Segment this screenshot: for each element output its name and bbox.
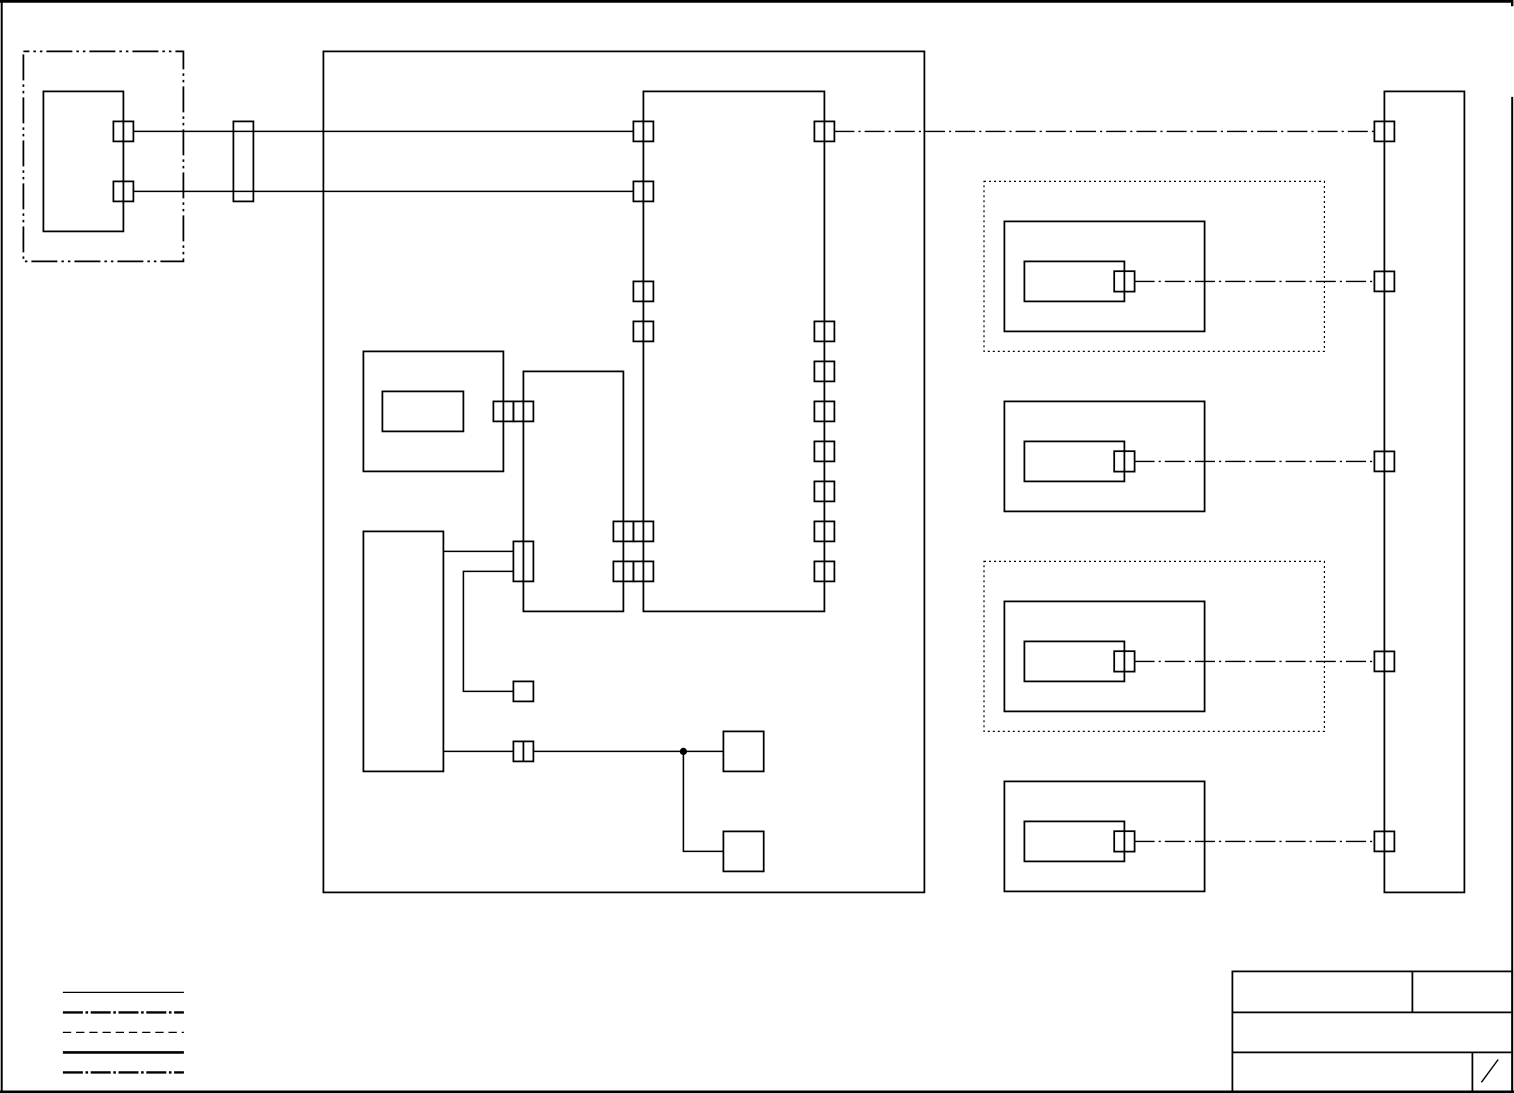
page left border [1,0,3,1093]
element of A1 [1024,261,1124,301]
component box A1 (sensor) [1004,221,1204,331]
wire M1-1 to U1 pin [133,130,633,132]
legend sample 4 thick solid line [63,1051,184,1054]
component box A2 (sensor) [1004,401,1204,511]
pin U1 left mid upper [633,521,653,541]
wire M4 lower to inline connector X4 [443,750,513,752]
pin M3 in [513,401,533,421]
dash-dot-dot enclosure around top-left unit [23,51,183,261]
dash-dot wire A2 to junction strip [1135,460,1375,462]
ground block G1 [723,731,763,771]
dash-dot wire A4 to junction strip [1135,840,1375,842]
page bottom border [0,1090,1514,1093]
pin M1-2 [113,181,133,201]
connector X4 mating divider [522,741,524,761]
pin A1 [1114,271,1134,291]
connector X2 two-pin [513,541,533,581]
strip pin 5 [1374,831,1394,851]
strip pin 2 [1374,271,1394,291]
title block cell divider bottom row [1471,1052,1473,1091]
component box A3 (sensor) [1004,601,1204,711]
title block cell divider top row [1411,971,1413,1012]
legend sample 1 thin solid line [63,991,184,993]
dotted shield enclosure S2 [984,561,1324,731]
pin U1 right 2 [814,321,834,341]
junction node [680,748,687,755]
legend sample 3 thin dashed line [63,1031,184,1033]
legend sample 5 thick dash-dot line [63,1071,184,1073]
component box M1 (top-left unit) [43,91,123,231]
wire M1-2 to U1 pin [133,190,633,192]
pin U1 left 3 [633,281,653,301]
pin U1 right 5 [814,441,834,461]
pin U1 left 2 [633,181,653,201]
pin X3 [513,681,533,701]
component box M4 (left lower unit) [363,531,443,771]
junction strip (right connector rail) [1384,91,1464,892]
element of A4 [1024,821,1124,861]
main harness box [323,51,924,892]
page top border right tick [1511,0,1513,6]
title block diagonal slash [1481,1060,1498,1083]
wire M4 upper to connector X2 [443,550,513,552]
strip pin 4 [1374,651,1394,671]
pin A3 [1114,651,1134,671]
pin U1 right 1 [814,121,834,141]
wire X4 to ground block G1 [533,750,723,752]
page top border [0,0,1513,3]
pin A4 [1114,831,1134,851]
pin U1 right 3 [814,361,834,381]
wire X2 lower pin loop to pin X3 [463,571,513,691]
pin U1 left 4 [633,321,653,341]
title block row divider 2 [1232,1051,1512,1053]
strip pin 1 [1374,121,1394,141]
pin M3 right lower [613,561,633,581]
inline connector X4 [513,741,533,761]
element of A2 [1024,441,1124,481]
inline connector X1 [233,121,253,201]
dash-dot wire U1 to junction strip pin 1 [834,130,1374,132]
title block row divider 1 [1232,1011,1512,1013]
ground block G2 [723,831,763,871]
wire junction down to ground block G2 [683,751,723,851]
pin A2 [1114,451,1134,471]
dash-dot wire A1 to junction strip [1135,280,1375,282]
pin U1 left 1 [633,121,653,141]
pin U1 right 8 [814,561,834,581]
pin U1 left mid lower [633,561,653,581]
pin M3 right upper [613,521,633,541]
label window of M2 [382,391,463,431]
control unit U1 [643,91,824,611]
pin M1-1 [113,121,133,141]
title block frame [1232,971,1512,1091]
pin U1 right 7 [814,521,834,541]
component box M3 (tall narrow module) [523,371,623,611]
dash-dot wire A3 to junction strip [1135,660,1375,662]
dotted shield enclosure S1 [984,181,1324,351]
pin U1 right 6 [814,481,834,501]
strip pin 3 [1374,451,1394,471]
element of A3 [1024,641,1124,681]
component box A4 (sensor) [1004,781,1204,891]
pin U1 right 4 [814,401,834,421]
component box M2 (relay box with label window) [363,351,503,471]
legend sample 2 thick dash-dot line [63,1011,184,1013]
pin M2 out [493,401,513,421]
page right border [1511,97,1513,1092]
